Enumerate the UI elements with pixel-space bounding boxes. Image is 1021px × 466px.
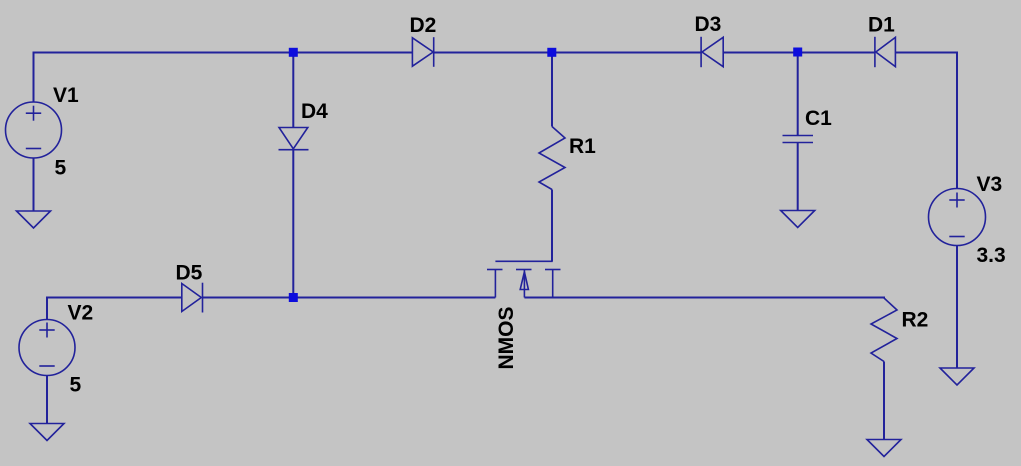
wire bottom rail segment 1 (V2 corner to D5 anode): [47, 298, 182, 320]
junction node at D4 top: [289, 48, 298, 57]
wire V1 bottom lead: [33, 158, 35, 212]
voltage source V2: [19, 320, 75, 376]
svg-text:V3: V3: [977, 173, 1003, 196]
svg-text:NMOS: NMOS: [495, 307, 518, 370]
ground under V3: [940, 368, 974, 385]
svg-text:D3: D3: [695, 13, 722, 36]
wire top rail segment 4 (D1 anode to V3 corner): [895, 53, 957, 189]
svg-text:D2: D2: [410, 14, 437, 37]
resistor R1: [539, 127, 565, 190]
svg-text:D4: D4: [301, 100, 328, 123]
ground under V2: [30, 424, 64, 441]
diode D2: [412, 38, 433, 66]
wire top rail segment 3 (D3 anode to D1 cathode): [723, 52, 875, 54]
wire C1 top lead: [797, 53, 799, 136]
junction node at D4 bottom: [289, 293, 298, 302]
junction node at C1 top: [793, 48, 802, 57]
wire R2 bottom lead: [883, 362, 885, 440]
transistor NMOS channel dash 1: [487, 269, 503, 271]
junction node at R1 top: [547, 48, 556, 57]
transistor NMOS right leg: [552, 270, 554, 298]
svg-text:5: 5: [55, 157, 67, 180]
diode D1: [876, 37, 896, 66]
resistor R2: [871, 298, 897, 362]
transistor NMOS gate bar: [495, 260, 552, 262]
wire bottom rail segment 2 (D5 cathode to NMOS left leg): [203, 297, 496, 299]
wire R1 bottom lead to gate: [551, 190, 553, 262]
wire C1 bottom lead: [797, 143, 799, 211]
wire V3 bottom lead: [956, 246, 958, 369]
transistor NMOS channel dash 3: [545, 269, 561, 271]
diode D3: [702, 37, 723, 66]
svg-text:C1: C1: [805, 107, 832, 130]
transistor NMOS middle leg: [523, 270, 525, 298]
capacitor C1: [783, 135, 814, 137]
svg-text:3.3: 3.3: [977, 244, 1006, 267]
transistor NMOS bulk arrow: [520, 272, 528, 290]
wire D4 branch lower: [292, 150, 294, 298]
ground under R2: [867, 440, 901, 457]
svg-text:D1: D1: [868, 14, 895, 37]
wire top rail segment 2 (D2 cathode to D3 cathode): [434, 52, 701, 54]
svg-text:5: 5: [70, 374, 82, 397]
transistor NMOS left leg: [494, 270, 496, 298]
svg-text:R1: R1: [569, 135, 596, 158]
svg-text:R2: R2: [902, 309, 929, 332]
wire V2 bottom lead: [46, 376, 48, 424]
transistor NMOS channel dash 2: [516, 269, 532, 271]
wire top rail segment 1 (V1 corner to D2 anode): [34, 53, 413, 103]
voltage source V3: [929, 189, 986, 246]
ground under V1: [17, 211, 51, 228]
ground under C1: [781, 211, 815, 228]
wire R1 top lead: [551, 53, 553, 127]
wire bottom rail segment 3 (NMOS middle leg to R2 corner): [524, 297, 884, 300]
diode D5: [182, 284, 202, 312]
svg-text:D5: D5: [176, 262, 203, 285]
voltage source V1: [6, 102, 62, 158]
svg-text:V2: V2: [68, 302, 94, 325]
wire D4 branch upper: [292, 53, 294, 128]
diode D4: [279, 128, 308, 149]
svg-text:V1: V1: [53, 84, 79, 107]
